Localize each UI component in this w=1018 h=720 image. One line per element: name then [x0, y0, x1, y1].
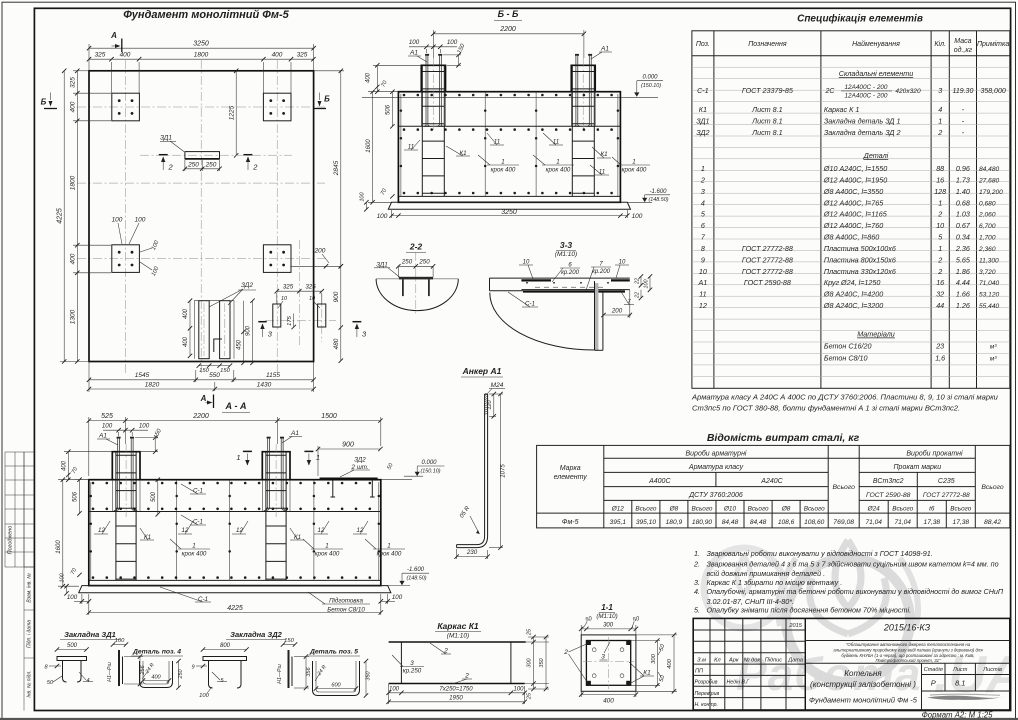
- svg-text:Відомість витрат сталі, кг: Відомість витрат сталі, кг: [707, 432, 860, 444]
- svg-text:Вироби арматурні: Вироби арматурні: [685, 450, 746, 458]
- svg-text:10: 10: [281, 296, 288, 302]
- anchor dim 120: [487, 392, 496, 419]
- svg-text:Ø8: Ø8: [669, 505, 679, 512]
- svg-text:1: 1: [325, 543, 328, 550]
- detail 1-1 title: [596, 603, 617, 620]
- svg-text:5.65: 5.65: [956, 255, 971, 264]
- svg-text:9: 9: [191, 665, 194, 671]
- svg-text:2015/16-КЗ: 2015/16-КЗ: [883, 623, 931, 633]
- svg-text:17,38: 17,38: [924, 519, 941, 526]
- svg-text:Н1—Рш: Н1—Рш: [107, 662, 113, 682]
- svg-text:Підготовка: Підготовка: [329, 598, 363, 605]
- svg-text:(150.10): (150.10): [420, 468, 440, 474]
- detail 1-1 right dims 50/300/50/400: [631, 633, 677, 694]
- svg-text:100: 100: [199, 693, 209, 699]
- svg-text:900: 900: [342, 441, 354, 448]
- svg-text:2С: 2С: [825, 88, 836, 95]
- svg-text:С-1: С-1: [193, 488, 203, 495]
- svg-text:506: 506: [386, 104, 392, 115]
- svg-text:Ø8: Ø8: [781, 505, 791, 512]
- svg-text:100: 100: [447, 39, 458, 46]
- svg-text:150: 150: [199, 368, 209, 374]
- svg-text:32: 32: [936, 290, 944, 299]
- svg-text:3250: 3250: [501, 209, 517, 216]
- svg-text:400: 400: [603, 698, 614, 705]
- svg-text:Стадія: Стадія: [924, 667, 943, 673]
- svg-text:Взам. інв. №: Взам. інв. №: [27, 573, 33, 603]
- svg-text:1300: 1300: [70, 309, 77, 324]
- Б-Б anchor rods А1 left: [424, 54, 444, 127]
- section marker 2 (left): [159, 155, 174, 172]
- svg-text:Зварювання деталей 4 з 6 та 5: Зварювання деталей 4 з 6 та 5 з 7 здійсн…: [707, 559, 999, 568]
- svg-text:100: 100: [135, 217, 146, 224]
- svg-text:Ø12: Ø12: [611, 505, 625, 512]
- svg-text:8: 8: [701, 244, 705, 253]
- Б-Б dim 150 (rod stickout): [443, 43, 467, 68]
- svg-text:С235: С235: [938, 478, 955, 485]
- detail 2-2 title: [406, 242, 426, 253]
- svg-text:3: 3: [938, 86, 942, 95]
- svg-text:1800: 1800: [194, 52, 209, 59]
- svg-text:2: 2: [700, 175, 705, 184]
- svg-text:С-1: С-1: [525, 301, 535, 308]
- svg-text:450: 450: [237, 339, 243, 350]
- Б-Б annotation labels: [404, 133, 650, 176]
- svg-text:Зварювальні роботи виконувати: Зварювальні роботи виконувати у відповід…: [707, 549, 933, 558]
- А-А dim 900 and ЗД2 label: [316, 441, 395, 477]
- svg-text:2,060: 2,060: [978, 212, 996, 219]
- svg-text:350: 350: [539, 657, 545, 667]
- А-А dim 150 and labels А1: [97, 428, 302, 454]
- svg-text:11: 11: [553, 139, 559, 146]
- Б-Б base (підготовка): [388, 202, 630, 209]
- svg-text:395,1: 395,1: [610, 519, 627, 526]
- svg-text:150: 150: [284, 638, 294, 644]
- svg-text:16: 16: [936, 175, 944, 184]
- detail Закладна ЗД2 title: [226, 630, 286, 640]
- svg-text:1,700: 1,700: [979, 235, 996, 242]
- svg-text:400: 400: [667, 658, 673, 668]
- svg-text:500: 500: [67, 643, 78, 649]
- svg-text:Пластина 330х120х6: Пластина 330х120х6: [824, 267, 896, 276]
- detail Деталь поз. 5 title: [308, 649, 360, 657]
- svg-text:1: 1: [556, 159, 559, 166]
- svg-text:71,040: 71,040: [979, 280, 1000, 287]
- svg-text:1545: 1545: [135, 372, 150, 379]
- detail 3-3 slab band and column: [490, 278, 632, 350]
- svg-text:Складальні елементи: Складальні елементи: [839, 69, 914, 78]
- svg-text:крок 400: крок 400: [491, 167, 516, 174]
- svg-text:(М1:10): (М1:10): [447, 633, 469, 640]
- svg-text:395,10: 395,10: [636, 519, 657, 526]
- svg-text:325: 325: [297, 52, 308, 59]
- svg-text:ГОСТ 27772-88: ГОСТ 27772-88: [742, 244, 793, 253]
- svg-text:Лист 8.1: Лист 8.1: [751, 128, 783, 137]
- detail 1-1 labels 2/3/К1: [563, 642, 654, 684]
- svg-text:Бетон С8/10: Бетон С8/10: [327, 607, 365, 614]
- svg-text:12А400С - 200: 12А400С - 200: [845, 93, 888, 100]
- svg-text:1.26: 1.26: [956, 301, 970, 310]
- svg-text:88,42: 88,42: [984, 519, 1001, 526]
- specification rows: Складальні елементи group: [696, 69, 1006, 137]
- svg-text:25: 25: [527, 628, 533, 636]
- svg-text:Ø8 А240С, l=4200: Ø8 А240С, l=4200: [823, 290, 883, 299]
- svg-text:1.40: 1.40: [956, 187, 970, 196]
- svg-text:3-3: 3-3: [560, 240, 573, 250]
- svg-text:16: 16: [936, 278, 944, 287]
- svg-text:1: 1: [938, 198, 942, 207]
- svg-text:1: 1: [632, 159, 635, 166]
- svg-text:358,000: 358,000: [980, 88, 1005, 95]
- svg-text:84,48: 84,48: [722, 519, 739, 526]
- svg-text:400: 400: [120, 52, 131, 59]
- svg-text:А1: А1: [409, 50, 418, 57]
- anchor radius label R: [459, 505, 479, 534]
- А-А pedestal left: [112, 444, 140, 518]
- pad leader labels 100 100 (bottom-left pad): [112, 217, 161, 278]
- svg-text:1800: 1800: [70, 175, 77, 190]
- svg-text:12А400С - 200: 12А400С - 200: [845, 84, 888, 91]
- svg-text:Круг Ø24, l=1250: Круг Ø24, l=1250: [824, 278, 881, 287]
- svg-text:Арк: Арк: [728, 658, 739, 664]
- svg-text:М24: М24: [491, 382, 504, 389]
- svg-text:400: 400: [151, 675, 161, 681]
- svg-text:4: 4: [938, 105, 942, 114]
- svg-text:Прокат марки: Прокат марки: [893, 464, 941, 471]
- svg-text:Підпис: Підпис: [765, 658, 783, 664]
- svg-text:2-2: 2-2: [409, 242, 423, 252]
- svg-text:0,680: 0,680: [979, 200, 996, 207]
- ЗД2 side pin: [277, 638, 297, 688]
- svg-text:12: 12: [357, 527, 364, 534]
- svg-text:Закладна деталь ЗД 2: Закладна деталь ЗД 2: [824, 128, 901, 137]
- svg-text:1600: 1600: [366, 139, 372, 153]
- svg-text:2: 2: [937, 210, 942, 219]
- specification rows: Деталі group: [698, 151, 1004, 310]
- svg-text:2: 2: [563, 649, 568, 656]
- embedded plate ЗД1 in plan: [140, 135, 292, 159]
- svg-text:Б: Б: [41, 98, 47, 107]
- svg-text:м³: м³: [990, 356, 998, 363]
- svg-text:Погоджено: Погоджено: [8, 526, 14, 555]
- svg-text:150: 150: [220, 368, 230, 374]
- plan top dimension 3250: [87, 40, 316, 70]
- svg-text:ЗД2: ЗД2: [354, 457, 366, 464]
- svg-text:6,700: 6,700: [979, 223, 996, 230]
- detail Анкер А1 title: [461, 366, 503, 377]
- svg-text:179,200: 179,200: [979, 189, 1003, 196]
- svg-text:119.30: 119.30: [952, 88, 973, 95]
- Б-Б pedestal right: [571, 58, 595, 130]
- svg-text:кр.200: кр.200: [592, 269, 611, 275]
- svg-text:4225: 4225: [227, 605, 243, 612]
- svg-text:0.96: 0.96: [956, 164, 970, 173]
- svg-text:1.66: 1.66: [956, 290, 970, 299]
- svg-text:Підп. і дата: Підп. і дата: [27, 620, 33, 648]
- А-А carcass К1 ladder right: [266, 453, 286, 581]
- svg-text:2: 2: [464, 673, 469, 680]
- detail Деталь поз. 4 title: [131, 649, 183, 657]
- svg-text:250: 250: [205, 161, 217, 168]
- svg-text:22: 22: [635, 278, 641, 285]
- svg-text:Фм-5: Фм-5: [562, 519, 579, 526]
- svg-text:крок 400: крок 400: [622, 167, 647, 174]
- svg-text:11: 11: [408, 144, 414, 151]
- svg-text:крок 400: крок 400: [182, 551, 207, 558]
- А-А annotation labels: [94, 484, 405, 614]
- svg-text:3.: 3.: [694, 578, 700, 587]
- svg-text:А1: А1: [698, 278, 708, 287]
- svg-text:А - А: А - А: [225, 401, 247, 411]
- svg-text:Деталь поз. 4: Деталь поз. 4: [132, 649, 181, 656]
- svg-text:200: 200: [611, 307, 623, 314]
- svg-text:ДСТУ 3760:2006: ДСТУ 3760:2006: [688, 492, 743, 499]
- svg-text:Ø10 А240С, l=1550: Ø10 А240С, l=1550: [823, 164, 887, 173]
- svg-text:Перевірив: Перевірив: [695, 691, 720, 697]
- svg-text:250: 250: [178, 670, 184, 680]
- svg-text:250: 250: [187, 161, 199, 168]
- svg-text:3,720: 3,720: [979, 269, 996, 276]
- detail 1-1 bottom dim 400: [579, 691, 638, 704]
- section marker Б (right): [313, 93, 330, 109]
- Б-Б rebar dots rows: [403, 94, 613, 195]
- svg-text:2.: 2.: [693, 559, 700, 568]
- detail 3-3 dims: [508, 260, 652, 319]
- svg-text:Лист: Лист: [952, 667, 968, 673]
- svg-text:Ø8 А400С, l=860: Ø8 А400С, l=860: [823, 233, 879, 242]
- Б-Б bottom dim 100/3250/100: [377, 209, 643, 220]
- svg-text:600: 600: [331, 683, 341, 689]
- svg-text:Найменування: Найменування: [852, 40, 900, 48]
- svg-text:ВСт3пс2: ВСт3пс2: [873, 478, 904, 485]
- svg-text:3: 3: [601, 654, 605, 661]
- svg-text:(конструкції залізобетонні ): (конструкції залізобетонні ): [810, 680, 916, 689]
- svg-text:50: 50: [47, 680, 54, 686]
- svg-text:400: 400: [70, 253, 77, 264]
- svg-text:250: 250: [418, 259, 430, 266]
- svg-text:Фундамент монолітний Фм -5: Фундамент монолітний Фм -5: [809, 696, 918, 705]
- Б-Б level mark -1.600: [627, 189, 670, 203]
- svg-text:А1: А1: [600, 46, 609, 53]
- svg-text:ГОСТ 27772-88: ГОСТ 27772-88: [923, 492, 970, 499]
- svg-text:769,08: 769,08: [833, 519, 854, 526]
- svg-text:1500: 1500: [321, 413, 337, 420]
- svg-text:2: 2: [937, 128, 942, 137]
- svg-text:Кл: Кл: [714, 658, 721, 664]
- svg-text:Лист 8.1: Лист 8.1: [751, 105, 783, 114]
- svg-text:12: 12: [182, 527, 189, 534]
- svg-text:0.000: 0.000: [642, 75, 658, 81]
- А-А top dims 525/2200/1500: [87, 413, 383, 476]
- svg-text:0.000: 0.000: [421, 460, 437, 466]
- svg-text:900: 900: [333, 291, 340, 302]
- svg-text:Ø12 А400С, l=760: Ø12 А400С, l=760: [823, 221, 883, 230]
- Деталь поз.5 U-shape: [313, 661, 360, 696]
- anchor dim 1075: [489, 392, 507, 550]
- detail Каркас К1 title: [435, 621, 481, 640]
- svg-text:крок 400: крок 400: [315, 551, 340, 558]
- svg-text:17,38: 17,38: [953, 519, 970, 526]
- svg-text:25: 25: [527, 692, 533, 700]
- svg-text:325: 325: [95, 52, 106, 59]
- notes list: [693, 549, 1004, 614]
- svg-text:Деталі: Деталі: [863, 151, 889, 160]
- svg-text:Лист 8.1: Лист 8.1: [751, 117, 783, 126]
- svg-text:100: 100: [60, 572, 66, 582]
- svg-text:Анкер А1: Анкер А1: [462, 366, 502, 376]
- А-А left dims 400/70/506/1600/100/70/500: [56, 450, 160, 596]
- svg-text:Ø10: Ø10: [723, 505, 737, 512]
- svg-text:К1: К1: [600, 151, 607, 158]
- svg-text:Закладна деталь ЗД 1: Закладна деталь ЗД 1: [824, 117, 901, 126]
- svg-text:ЗД2: ЗД2: [241, 282, 253, 289]
- svg-text:Ø12 А400С, l=1165: Ø12 А400С, l=1165: [823, 210, 888, 219]
- svg-text:Маса: Маса: [954, 38, 971, 45]
- svg-text:Позначення: Позначення: [748, 41, 787, 48]
- svg-text:100: 100: [102, 423, 113, 430]
- Б-Б carcass К1 ladder left: [422, 66, 444, 196]
- svg-text:1430: 1430: [257, 381, 272, 388]
- svg-text:175: 175: [287, 315, 293, 325]
- svg-text:300: 300: [603, 622, 614, 628]
- svg-text:кр.250: кр.250: [403, 668, 422, 675]
- svg-text:1: 1: [236, 453, 240, 462]
- plan pads (4 column pads with anchor dots): [112, 93, 291, 272]
- svg-text:(150.10): (150.10): [641, 83, 661, 89]
- svg-text:4.44: 4.44: [956, 278, 970, 287]
- svg-text:Недін В.Г: Недін В.Г: [727, 680, 751, 686]
- Б-Б slab body: [398, 92, 620, 203]
- svg-text:2: 2: [937, 267, 942, 276]
- plan overall left dimension 4225: [57, 69, 67, 364]
- svg-text:1.73: 1.73: [956, 175, 970, 184]
- svg-text:100: 100: [67, 594, 78, 601]
- svg-text:Примітка: Примітка: [977, 40, 1009, 48]
- svg-text:1: 1: [701, 164, 705, 173]
- svg-text:1: 1: [192, 543, 195, 550]
- plan dims around ЗД2: 400/400/150 150/450/900: [183, 299, 255, 374]
- svg-text:0.34: 0.34: [956, 233, 970, 242]
- section marker А (bottom): [200, 394, 214, 408]
- svg-text:ЗД1: ЗД1: [376, 261, 387, 268]
- svg-text:6: 6: [701, 221, 705, 230]
- А-А pedestal right: [262, 444, 290, 518]
- specification table grid: [692, 31, 1010, 389]
- svg-text:ЗД2: ЗД2: [696, 128, 709, 137]
- svg-text:356: 356: [306, 666, 312, 676]
- svg-text:Всього: Всього: [804, 505, 825, 512]
- svg-text:10: 10: [523, 260, 530, 266]
- svg-text:Закладна ЗД2: Закладна ЗД2: [230, 630, 282, 639]
- svg-text:2: 2: [443, 648, 448, 655]
- svg-text:11: 11: [699, 290, 706, 299]
- svg-text:Ø24: Ø24: [867, 505, 881, 512]
- svg-text:Листів: Листів: [982, 667, 1002, 673]
- svg-text:(М1:10): (М1:10): [596, 613, 617, 620]
- А-А cut markers 1-1: [236, 451, 320, 465]
- section marker 3 (left): [258, 322, 272, 339]
- ЗД2 small dims 9/5/100: [191, 664, 227, 699]
- svg-text:400: 400: [62, 460, 68, 471]
- svg-text:550: 550: [209, 372, 220, 379]
- svg-text:53,120: 53,120: [979, 292, 1000, 299]
- svg-text:4.: 4.: [694, 587, 700, 596]
- svg-text:27,680: 27,680: [978, 177, 1000, 184]
- Деталь поз.5 dims: [314, 659, 372, 698]
- svg-text:Всього: Всього: [748, 505, 769, 512]
- svg-text:23: 23: [935, 342, 944, 351]
- svg-text:Опалубочні, арматурні та бетон: Опалубочні, арматурні та бетонні роботи …: [707, 587, 1004, 596]
- А-А rebar dots rows: [92, 482, 371, 579]
- Б-Б left dims 400/70/506/1600/100/70: [359, 63, 421, 211]
- corner bracket mark near ЗД2: [214, 339, 222, 352]
- plan bottom dims 1545/550/1155 and 1820/1430: [87, 362, 316, 393]
- ЗД1 side pin: [107, 638, 128, 686]
- svg-text:2200: 2200: [192, 413, 209, 420]
- svg-text:2.36: 2.36: [955, 244, 970, 253]
- svg-text:128: 128: [934, 187, 946, 196]
- svg-text:(148.50): (148.50): [406, 576, 426, 582]
- specification table title: [797, 13, 923, 25]
- Б-Б ground level line: [362, 96, 658, 98]
- А-А embedded plates ЗД2 on top: [320, 479, 378, 497]
- specification table header: [696, 38, 1009, 54]
- svg-text:11: 11: [599, 169, 605, 176]
- svg-text:№ док: № док: [744, 658, 761, 664]
- svg-text:1: 1: [938, 244, 942, 253]
- svg-text:Закладна ЗД1: Закладна ЗД1: [64, 630, 116, 639]
- svg-text:Деталь поз. 5: Деталь поз. 5: [309, 649, 358, 656]
- svg-text:500: 500: [151, 491, 157, 502]
- svg-text:1950: 1950: [449, 695, 463, 702]
- svg-text:Каркас К1: Каркас К1: [437, 621, 479, 631]
- Б-Б pedestal left: [421, 58, 445, 130]
- svg-text:Н1—Рш: Н1—Рш: [277, 664, 283, 684]
- svg-text:Арматура класу: Арматура класу: [688, 464, 744, 471]
- svg-text:Матеріали: Матеріали: [857, 330, 895, 339]
- svg-text:всій довжині примикання детале: всій довжині примикання деталей .: [707, 569, 826, 578]
- А-А level mark -1.600: [388, 567, 429, 585]
- svg-text:84,48: 84,48: [750, 519, 767, 526]
- left margin labels column: [24, 452, 34, 711]
- svg-text:А240С: А240С: [760, 478, 783, 485]
- svg-text:(М1:10): (М1:10): [555, 251, 577, 258]
- svg-text:84,480: 84,480: [979, 166, 1000, 173]
- svg-text:Розробив: Розробив: [695, 680, 718, 686]
- svg-text:Специфікація елементів: Специфікація елементів: [797, 13, 923, 25]
- svg-text:1.: 1.: [694, 549, 700, 558]
- anchor dim 230: [454, 549, 489, 559]
- svg-text:Фундамент монолітний Фм-5: Фундамент монолітний Фм-5: [123, 9, 289, 21]
- note text under specification: [691, 393, 999, 413]
- detail 1-1 top dims 50/300/50: [579, 616, 641, 635]
- svg-text:300: 300: [527, 657, 533, 667]
- detail 3-3 title: [555, 240, 577, 258]
- svg-text:Всього: Всього: [981, 484, 1004, 491]
- left margin stamp grid (Погоджено block): [5, 452, 34, 567]
- plan slab outline: [89, 71, 314, 362]
- svg-text:325: 325: [283, 284, 294, 291]
- steel table grid: [537, 445, 1010, 528]
- Б-Б anchor rods А1 right: [574, 54, 594, 127]
- svg-text:С-1: С-1: [697, 86, 709, 95]
- svg-text:Каркас К 1 збирати по місцю мо: Каркас К 1 збирати по місцю монтажу .: [707, 578, 843, 587]
- svg-text:250: 250: [401, 259, 413, 266]
- svg-text:альтернативному природному газ: альтернативному природному газу виді пал…: [833, 648, 983, 653]
- svg-text:Всього: Всього: [833, 484, 856, 491]
- svg-text:Б: Б: [324, 95, 330, 104]
- А-А anchor rods А1 left: [114, 437, 137, 511]
